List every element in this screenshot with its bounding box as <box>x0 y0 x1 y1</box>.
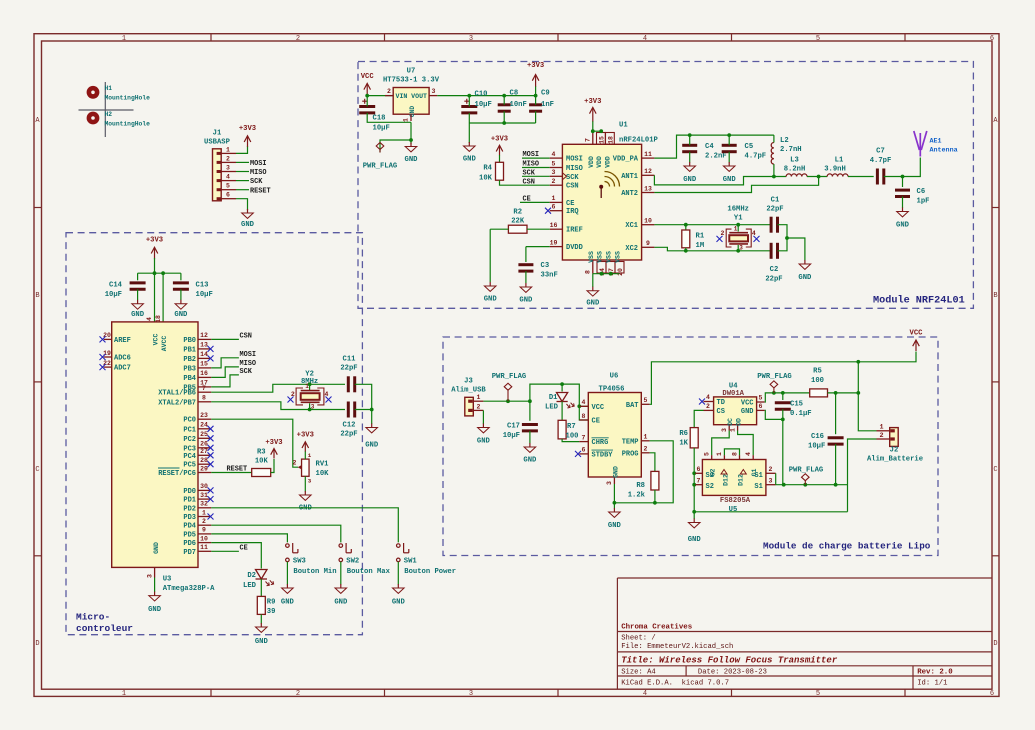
svg-text:10K: 10K <box>316 470 330 478</box>
svg-text:VSS: VSS <box>606 251 613 263</box>
svg-text:GND: GND <box>174 311 188 319</box>
wire C13 top <box>180 273 182 280</box>
U7 pin 2 <box>385 95 393 97</box>
ic U5 body <box>702 460 766 496</box>
svg-text:CE: CE <box>566 200 574 208</box>
svg-text:PWR_FLAG: PWR_FLAG <box>789 467 824 475</box>
U3 pin 27 PC4 <box>198 454 211 456</box>
svg-text:KiCad E.D.A. kicad 7.0.7: KiCad E.D.A. kicad 7.0.7 <box>621 680 729 688</box>
wire C6 bottom <box>902 197 904 209</box>
U7 pin 3 <box>429 95 437 97</box>
svg-text:4: 4 <box>745 452 752 456</box>
wire PB5 to SCK <box>211 375 239 387</box>
svg-text:MISO: MISO <box>523 161 540 169</box>
ground under C13 <box>175 300 187 309</box>
wire VCC to U7 VIN <box>367 95 393 97</box>
svg-text:SCK: SCK <box>566 174 579 182</box>
wire J2 pin2 to switch node <box>848 439 877 512</box>
wire L2 top <box>773 135 775 142</box>
capacitor C16 <box>828 438 844 444</box>
wire PD4 to SW2 <box>211 525 340 542</box>
svg-text:10: 10 <box>644 218 652 225</box>
svg-text:PWR_FLAG: PWR_FLAG <box>757 373 792 381</box>
svg-text:RV1: RV1 <box>316 461 330 469</box>
svg-text:GND: GND <box>896 222 910 230</box>
wire BAT riser <box>650 352 916 405</box>
svg-text:nRF24L01P: nRF24L01P <box>619 137 659 145</box>
ic U4 body <box>714 397 757 425</box>
svg-text:D12: D12 <box>738 474 745 486</box>
wire C11 right <box>355 384 372 409</box>
U3 pin 14 PB2 <box>198 357 211 359</box>
wire C6 top <box>902 177 904 188</box>
svg-text:8: 8 <box>202 395 206 402</box>
wire R9 to GND <box>260 614 262 623</box>
wire MOSI to U1 <box>522 157 550 159</box>
U4 pin 6 GND <box>757 409 765 411</box>
wire R8 bottom <box>654 490 656 503</box>
wire C2 right <box>778 238 788 251</box>
svg-text:3: 3 <box>721 428 728 432</box>
svg-text:Id: 1/1: Id: 1/1 <box>917 680 947 688</box>
wire SCK to U1 <box>522 175 550 177</box>
svg-text:+3V3: +3V3 <box>584 98 601 106</box>
svg-text:2: 2 <box>552 178 556 185</box>
svg-text:PD3: PD3 <box>183 514 196 522</box>
U3 pin 28 PC5 <box>198 463 211 465</box>
svg-text:GND: GND <box>281 599 295 607</box>
U3 pin 10 PD6 <box>198 542 211 544</box>
U3 pin 15 PB3 <box>198 367 211 369</box>
wire PB4 to MISO <box>211 367 239 378</box>
power flag near U7 <box>376 143 384 153</box>
svg-text:GND: GND <box>798 274 812 282</box>
svg-text:GND: GND <box>613 466 620 478</box>
svg-text:C10: C10 <box>475 91 488 99</box>
svg-text:C: C <box>993 466 997 474</box>
U4 pin 2 CS <box>704 409 714 411</box>
svg-text:C17: C17 <box>507 423 520 431</box>
wire C8 bottom <box>503 111 505 123</box>
svg-text:PD7: PD7 <box>183 549 196 557</box>
svg-text:R4: R4 <box>483 165 492 173</box>
capacitor C18 <box>359 99 375 113</box>
U1 pin 3 SCK <box>550 175 563 177</box>
svg-text:DW01A: DW01A <box>722 390 744 398</box>
U5 pin 8 D12 <box>739 455 741 459</box>
svg-text:29: 29 <box>200 465 208 472</box>
svg-text:3: 3 <box>606 481 613 485</box>
svg-text:FS8205A: FS8205A <box>720 497 751 505</box>
svg-text:18: 18 <box>155 315 162 323</box>
wire C1 right <box>778 225 788 238</box>
wire PB3 to MOSI <box>211 358 239 368</box>
wire TEMP loop <box>614 441 673 503</box>
svg-text:PWR_FLAG: PWR_FLAG <box>492 373 527 381</box>
svg-text:GND: GND <box>153 542 160 554</box>
U1 pin 18 VDD <box>605 133 614 145</box>
svg-text:Antenna: Antenna <box>930 147 958 155</box>
svg-text:6: 6 <box>226 192 230 199</box>
svg-text:3: 3 <box>226 165 230 172</box>
inductor L2 <box>771 143 774 165</box>
svg-text:IRQ: IRQ <box>566 208 579 216</box>
svg-text:GND: GND <box>392 599 406 607</box>
svg-text:8: 8 <box>582 413 586 420</box>
U1 pin 10 XC1 <box>642 224 655 226</box>
svg-text:8: 8 <box>731 452 738 456</box>
svg-text:MOSI: MOSI <box>240 351 257 359</box>
wire C8 top <box>503 96 505 105</box>
svg-text:7: 7 <box>697 478 701 485</box>
wire D12 bridge <box>724 449 739 455</box>
svg-text:1: 1 <box>730 428 737 432</box>
U1 pin 12 ANT1 <box>642 174 655 176</box>
svg-text:4: 4 <box>146 317 153 321</box>
ground under U1 <box>587 287 599 296</box>
wire Y1 bottom <box>737 245 739 251</box>
svg-text:MISO: MISO <box>250 169 267 177</box>
svg-text:RESET: RESET <box>227 466 248 474</box>
wire D1 to R7 <box>561 402 563 421</box>
svg-text:ATmega328P-A: ATmega328P-A <box>163 585 215 593</box>
svg-text:+3V3: +3V3 <box>527 62 544 70</box>
svg-text:2: 2 <box>387 88 391 95</box>
svg-text:13: 13 <box>644 185 652 192</box>
U6 pin 3 GND <box>613 477 615 484</box>
svg-text:CHRG: CHRG <box>592 439 609 447</box>
svg-text:18: 18 <box>607 136 614 144</box>
wire XC2 row <box>654 247 770 251</box>
svg-text:10µF: 10µF <box>503 432 520 440</box>
svg-text:0.1µF: 0.1µF <box>790 410 812 418</box>
capacitor C6 <box>895 190 910 196</box>
wire J1 pin1 to +3V3 <box>236 146 248 153</box>
svg-text:28: 28 <box>200 457 208 464</box>
svg-text:SW1: SW1 <box>404 558 418 566</box>
svg-text:Module de charge batterie Lipo: Module de charge batterie Lipo <box>763 541 931 552</box>
power +3V3 right of U7 <box>532 75 539 87</box>
svg-text:2.7nH: 2.7nH <box>780 146 802 154</box>
U3 pin 25 PC2 <box>198 437 211 439</box>
wire U1 VSS to GND <box>593 273 620 275</box>
svg-text:1K: 1K <box>679 440 688 448</box>
mounting hole H1 <box>89 88 97 96</box>
U1 pin 13 ANT2 <box>642 192 655 194</box>
wire Y2 top <box>309 384 311 390</box>
svg-text:L3: L3 <box>790 157 799 165</box>
svg-text:5: 5 <box>644 397 648 404</box>
capacitor C4 <box>682 145 697 151</box>
wire R7 to CHRG <box>562 439 579 442</box>
svg-text:OD: OD <box>735 418 742 426</box>
U7 pin 1 GND <box>410 114 412 121</box>
svg-text:PC0: PC0 <box>183 417 196 425</box>
svg-text:VCC: VCC <box>910 330 924 338</box>
svg-text:GND: GND <box>405 156 419 164</box>
connector J1 pins <box>217 152 236 200</box>
wire J1 pin6 to GND <box>236 199 248 210</box>
svg-text:Module NRF24L01: Module NRF24L01 <box>873 295 965 307</box>
U4 pin 5 VCC <box>757 401 765 403</box>
wire ANT2 path <box>654 177 818 193</box>
ic U3 body <box>112 322 198 568</box>
ground under R9 <box>256 623 268 632</box>
svg-text:RESET: RESET <box>250 187 271 195</box>
svg-text:AREF: AREF <box>114 337 131 345</box>
ground right of C2 <box>799 260 811 269</box>
switch SW1 <box>397 543 409 562</box>
svg-text:32: 32 <box>200 501 208 508</box>
wire C16 bottom to S1 row <box>835 444 837 485</box>
wire OD to G1 <box>738 431 754 456</box>
capacitor C7 <box>877 169 883 185</box>
svg-text:1: 1 <box>226 146 230 153</box>
wire L2 bottom <box>773 164 775 176</box>
U6 pin 1 TEMP <box>641 440 649 442</box>
wire XTAL1 to Y2 <box>211 384 309 392</box>
svg-text:VDD: VDD <box>588 156 595 168</box>
svg-text:PWR_FLAG: PWR_FLAG <box>363 163 398 171</box>
svg-text:10: 10 <box>200 535 208 542</box>
svg-text:BAT: BAT <box>626 402 639 410</box>
wire R2 to IREF <box>527 228 550 230</box>
wire RV1 to GND <box>304 476 306 491</box>
wire decoupling ground rail <box>469 122 535 124</box>
power VCC at U7 <box>364 83 371 95</box>
wire R1 bottom <box>685 248 687 251</box>
svg-text:30: 30 <box>200 483 208 490</box>
svg-text:3: 3 <box>432 88 436 95</box>
wire C18 top <box>366 96 368 107</box>
ground left of R2 <box>484 282 496 291</box>
U1 pin 2 CSN <box>550 184 563 186</box>
wire C9 top <box>535 96 537 105</box>
wire R1 top <box>685 225 687 230</box>
svg-text:S2: S2 <box>706 483 714 491</box>
U1 SCK clock wedge <box>562 173 566 180</box>
svg-text:2.2nF: 2.2nF <box>705 153 727 161</box>
svg-text:9: 9 <box>202 527 206 534</box>
svg-text:RESET/PC6: RESET/PC6 <box>158 470 196 478</box>
svg-text:11: 11 <box>200 544 208 551</box>
svg-text:+3V3: +3V3 <box>146 237 163 245</box>
svg-text:CE: CE <box>240 544 248 552</box>
wire SW1 to GND <box>397 562 399 585</box>
svg-text:File: EmmeteurV2.kicad_sch: File: EmmeteurV2.kicad_sch <box>621 643 733 651</box>
ground under SW1 <box>393 584 405 593</box>
svg-text:6: 6 <box>582 447 586 454</box>
svg-text:7: 7 <box>585 138 592 142</box>
svg-text:PB0: PB0 <box>183 337 196 345</box>
capacitor C3 <box>518 265 533 271</box>
inductor L1 <box>827 174 848 177</box>
ground under U6 <box>609 508 621 517</box>
wire J1 pin2 MOSI <box>236 161 249 163</box>
capacitor C9 <box>529 105 542 111</box>
U1 pin 20 VSS <box>615 262 624 274</box>
svg-text:1: 1 <box>644 433 648 440</box>
wire R2 left to GND <box>490 228 508 230</box>
svg-text:XC2: XC2 <box>625 245 638 253</box>
mounting hole H2 <box>89 114 97 122</box>
svg-text:VDD_PA: VDD_PA <box>613 156 639 164</box>
wire PC0 to RV1 wiper <box>211 419 298 467</box>
svg-text:2: 2 <box>296 35 300 43</box>
svg-text:4: 4 <box>226 174 230 181</box>
resistor R3 <box>252 469 271 477</box>
wire PD6 to LED D2 <box>211 543 261 569</box>
svg-text:5: 5 <box>552 160 556 167</box>
svg-text:GND: GND <box>683 176 697 184</box>
wire L3 to L1 <box>807 176 827 178</box>
U3 pin 16 PB4 <box>198 376 211 378</box>
svg-text:VCC: VCC <box>153 334 160 346</box>
wire U6 GND down <box>613 484 615 509</box>
wire PD5 to SW3 <box>211 534 287 543</box>
svg-text:VCC: VCC <box>361 73 375 81</box>
wire C10 top <box>468 96 470 107</box>
wire SW3 to GND <box>286 562 288 585</box>
wire R4 to CSN net <box>500 180 550 185</box>
U3 pin 29 RESET/PC6 <box>198 472 211 474</box>
wire ANT1 path <box>654 175 786 185</box>
svg-text:1.2k: 1.2k <box>628 492 646 500</box>
U3 pin 23 PC0 <box>198 418 211 420</box>
svg-text:GND: GND <box>723 176 737 184</box>
wire C17 bottom <box>529 431 531 444</box>
power +3V3 above U3 <box>151 247 158 259</box>
svg-text:20: 20 <box>617 268 624 276</box>
svg-text:MountingHole: MountingHole <box>105 95 151 102</box>
U3 pin 1 PD3 <box>198 516 211 518</box>
svg-text:12: 12 <box>644 168 652 175</box>
svg-text:1M: 1M <box>696 242 705 250</box>
ground under U3 <box>149 592 161 601</box>
wire Y2 to C12 <box>310 409 345 411</box>
wire C4 bottom <box>689 152 691 163</box>
svg-text:DVDD: DVDD <box>566 244 583 252</box>
U1 pin 16 IREF <box>550 228 563 230</box>
svg-text:ADC6: ADC6 <box>114 355 131 363</box>
svg-text:4: 4 <box>325 391 329 398</box>
svg-text:2: 2 <box>879 432 883 440</box>
U1 pin 14 VSS <box>597 262 606 274</box>
svg-text:+3V3: +3V3 <box>239 125 256 133</box>
U3 pin 7 XTAL1/PB6 <box>198 391 211 393</box>
connector J3 pins <box>473 401 483 410</box>
svg-text:PC1: PC1 <box>183 426 196 434</box>
ground under SW2 <box>335 584 347 593</box>
wire +3V3 to U1 VDD <box>593 121 601 131</box>
svg-text:3: 3 <box>469 35 473 43</box>
svg-text:U6: U6 <box>610 373 619 381</box>
power flag at S1 row <box>802 474 810 485</box>
svg-text:GND: GND <box>741 408 754 416</box>
U1 pin 5 MISO <box>550 167 563 169</box>
U4 pin 4 TD <box>704 401 714 403</box>
wire C14 top <box>137 273 139 280</box>
wire USB riser to U6 <box>530 384 588 406</box>
ic U1 body <box>562 144 641 260</box>
svg-text:R9: R9 <box>267 599 276 607</box>
svg-text:MountingHole: MountingHole <box>105 121 151 128</box>
svg-text:CSN: CSN <box>566 183 579 191</box>
wire C5 bottom <box>728 152 730 163</box>
resistor R5 <box>810 389 828 397</box>
svg-text:1: 1 <box>879 424 883 432</box>
svg-text:VOUT: VOUT <box>411 93 427 100</box>
svg-text:+3V3: +3V3 <box>265 439 282 447</box>
wire C12 right <box>355 409 372 411</box>
ground under R6 rail <box>688 519 700 528</box>
U4 pin 3 OC <box>728 425 730 431</box>
svg-text:3: 3 <box>769 478 773 485</box>
svg-text:GND: GND <box>365 442 379 450</box>
svg-text:VIN: VIN <box>396 93 408 100</box>
svg-text:5: 5 <box>759 394 763 401</box>
U6 pin 2 PROG <box>641 452 649 454</box>
svg-text:100: 100 <box>566 433 579 441</box>
svg-text:PB1: PB1 <box>183 346 196 354</box>
svg-text:1: 1 <box>477 394 481 401</box>
svg-text:PB2: PB2 <box>183 356 196 364</box>
svg-text:3: 3 <box>308 478 312 485</box>
svg-text:16: 16 <box>550 222 558 229</box>
svg-text:HT7533-1 3.3V: HT7533-1 3.3V <box>383 77 440 85</box>
wire C15 top <box>782 393 784 400</box>
wire Y2 bottom <box>309 403 311 409</box>
U3 pin 17 PB5 <box>198 386 211 388</box>
svg-text:R6: R6 <box>679 430 688 438</box>
wire C4 top <box>689 135 691 145</box>
wire C3 to GND <box>525 271 527 283</box>
U5 pin 5 G2 <box>711 455 713 459</box>
U6 pin 7 CHRG <box>579 441 588 443</box>
svg-text:10µF: 10µF <box>475 101 492 109</box>
svg-text:PD2: PD2 <box>183 505 196 513</box>
wire XTAL2 to Y2 <box>211 402 309 410</box>
svg-text:2: 2 <box>296 690 300 698</box>
svg-text:Bouton Power: Bouton Power <box>404 568 456 576</box>
svg-text:PD4: PD4 <box>183 523 196 531</box>
svg-text:C: C <box>35 466 39 474</box>
wire OC to G2 <box>712 431 730 456</box>
svg-text:10K: 10K <box>255 458 269 466</box>
svg-text:1: 1 <box>552 195 556 202</box>
svg-text:CE: CE <box>592 418 600 426</box>
wire C3 top <box>525 247 527 262</box>
wire C15 bottom stub <box>782 409 784 419</box>
wire C5 top <box>728 135 730 145</box>
svg-text:R2: R2 <box>513 209 522 217</box>
U1 pin 9 XC2 <box>642 246 655 248</box>
wire C10 bottom <box>468 113 470 123</box>
mounting hole crosshair <box>79 82 134 137</box>
U3 pin 11 PD7 <box>198 550 211 552</box>
svg-text:3: 3 <box>739 245 743 252</box>
svg-text:13: 13 <box>200 342 208 349</box>
svg-text:1: 1 <box>308 452 312 459</box>
title block box lines <box>617 578 992 689</box>
svg-text:PC5: PC5 <box>183 462 196 470</box>
wire J3 pin1 row <box>483 400 530 402</box>
svg-text:Micro-: Micro- <box>76 611 110 622</box>
ic U6 body <box>588 393 641 478</box>
svg-text:C15: C15 <box>790 401 803 409</box>
svg-text:5: 5 <box>226 183 230 190</box>
svg-text:GND: GND <box>586 300 600 308</box>
